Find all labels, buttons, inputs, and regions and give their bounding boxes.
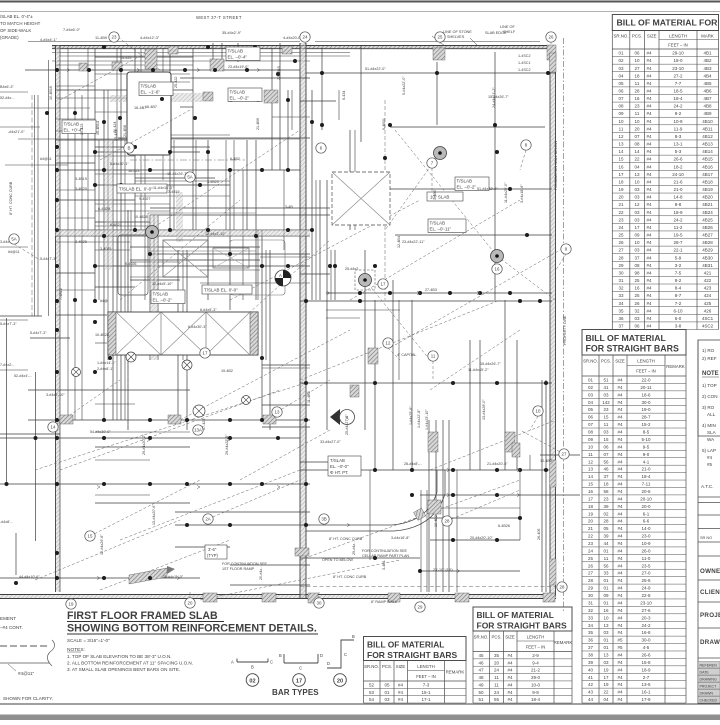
svg-text:11-#4x45'-2": 11-#4x45'-2" [468,368,489,372]
svg-text:PCS.: PCS. [382,664,392,669]
svg-text:#4: #4 [647,286,653,291]
svg-text:5) LAP: 5) LAP [702,448,716,453]
svg-text:WA: WA [707,437,715,442]
svg-text:T/SLAB: T/SLAB [430,221,446,226]
svg-text:426: 426 [704,308,712,313]
svg-text:18-5: 18-5 [673,89,683,94]
svg-text:5-#4x7'-3": 5-#4x7'-3" [30,331,47,335]
svg-text:8-2: 8-2 [675,278,682,283]
svg-text:3-4B: 3-4B [285,205,293,209]
svg-text:3-#4x5'-10": 3-#4x5'-10" [46,393,65,397]
svg-text:17-1: 17-1 [421,697,431,702]
svg-text:DATE: DATE [700,671,710,675]
svg-text:4B19: 4B19 [702,187,713,192]
svg-text:13A: 13A [194,428,202,433]
svg-text:03: 03 [634,195,640,200]
svg-text:8-5: 8-5 [643,430,650,435]
svg-text:20-#4x...: 20-#4x... [259,566,263,580]
svg-text:#4: #4 [507,668,513,673]
slab top edge [52,46,556,62]
svg-text:2) CON: 2) CON [702,394,718,399]
svg-text:2) REF: 2) REF [702,356,717,361]
svg-text:12: 12 [634,202,640,207]
dimension annotations [19,54,552,604]
svg-text:42: 42 [588,682,594,687]
svg-text:#4: #4 [617,400,623,405]
svg-text:3-4B20: 3-4B20 [207,180,219,184]
svg-text:DRAWING: DRAWING [700,678,717,682]
svg-text:32: 32 [588,608,594,613]
svg-text:32: 32 [618,286,624,291]
svg-text:04: 04 [603,697,609,702]
west margin lines [7,318,36,575]
svg-text:#4: #4 [617,452,623,457]
rotated dimension annotations [9,66,567,580]
svg-text:#4: #4 [617,690,623,695]
svg-text:OF SIDE-WALK: OF SIDE-WALK [0,28,31,33]
svg-text:22: 22 [603,690,609,695]
svg-text:16: 16 [495,267,500,272]
svg-text:47: 47 [478,668,484,673]
svg-text:2-#4x8'-1": 2-#4x8'-1" [97,367,114,371]
drain circles [72,352,251,417]
svg-text:03: 03 [384,697,390,702]
svg-text:17-425: 17-425 [202,419,206,430]
svg-text:27-0: 27-0 [641,571,651,576]
svg-text:16-8: 16-8 [641,630,651,635]
svg-text:12-#4x5'-10": 12-#4x5'-10" [152,282,173,286]
svg-text:18-0: 18-0 [673,58,683,63]
svg-text:#4: #4 [617,407,623,412]
svg-text:2-9: 2-9 [532,653,539,658]
svg-text:T/SLAB: T/SLAB [64,122,80,127]
svg-text:#4: #4 [647,293,653,298]
svg-text:423: 423 [704,286,712,291]
svg-text:14: 14 [618,149,624,154]
svg-text:#4: #4 [647,142,653,147]
svg-text:EMENT: EMENT [0,616,16,621]
svg-text:#4: #4 [647,104,653,109]
svg-text:11: 11 [588,452,593,457]
svg-text:25: 25 [588,556,594,561]
svg-text:/SLAB EL. 0'-4"±: /SLAB EL. 0'-4"± [0,14,33,19]
svg-text:SR.NO.: SR.NO. [583,359,598,364]
svg-text:7-3: 7-3 [423,683,430,688]
svg-text:421: 421 [704,270,712,275]
svg-text:PCS.: PCS. [601,359,611,364]
svg-text:#4: #4 [647,255,653,260]
svg-text:51-#4x22'-0": 51-#4x22'-0" [477,187,498,191]
svg-text:#4: #4 [617,534,623,539]
svg-text:03: 03 [634,248,640,253]
svg-text:46: 46 [478,660,484,665]
svg-text:18: 18 [618,180,624,185]
svg-text:15: 15 [603,415,609,420]
svg-text:7-4B12: 7-4B12 [59,288,63,300]
svg-text:35-#4x2'-9": 35-#4x2'-9" [222,31,242,35]
svg-text:14-8: 14-8 [673,195,683,200]
svg-text:02: 02 [249,678,255,684]
svg-text:4B28: 4B28 [702,240,713,245]
stair core (hatched) [148,213,256,277]
svg-text:10: 10 [536,409,541,414]
svg-text:20: 20 [494,660,500,665]
svg-text:5-#4x7'-3": 5-#4x7'-3" [40,257,57,261]
svg-text:05: 05 [618,81,624,86]
svg-text:02: 02 [618,58,624,63]
svg-text:46: 46 [603,467,609,472]
svg-text:05: 05 [588,407,594,412]
svg-text:23: 23 [618,217,624,222]
svg-text:02: 02 [588,385,594,390]
ramp walls [421,420,449,592]
svg-text:26-6: 26-6 [673,157,683,162]
svg-text:B: B [251,665,254,670]
svg-text:20-6: 20-6 [641,489,651,494]
svg-text:SHELVES: SHELVES [447,35,465,39]
svg-text:15-8: 15-8 [641,660,651,665]
svg-text:29-10: 29-10 [672,51,684,56]
svg-text:06: 06 [588,415,594,420]
svg-text:1-4B5: 1-4B5 [433,190,437,200]
svg-text:#4: #4 [647,58,653,63]
svg-text:53: 53 [369,690,375,695]
svg-text:21: 21 [618,202,624,207]
svg-text:29-#4x23'-5": 29-#4x23'-5" [225,434,229,455]
section marker A (upper) [275,270,291,286]
svg-text:22: 22 [588,534,594,539]
svg-text:6-0: 6-0 [675,316,682,321]
svg-text:09: 09 [603,593,609,598]
svg-text:22-4B15: 22-4B15 [277,66,281,80]
svg-text:39: 39 [603,504,609,509]
svg-text:11-2: 11-2 [674,225,683,230]
svg-text:8-#4x30'-1": 8-#4x30'-1" [110,162,129,166]
svg-text:424: 424 [704,293,712,298]
top dimension strings [28,25,540,46]
svg-text:8-4: 8-4 [675,286,682,291]
svg-text:11-9: 11-9 [674,126,683,131]
svg-text:4B17: 4B17 [702,172,713,177]
svg-text:TO MATCH HEIGHT: TO MATCH HEIGHT [0,21,41,26]
svg-text:#4@11: #4@11 [40,157,52,161]
svg-text:4-#4x20-0": 4-#4x20-0" [283,36,302,40]
svg-text:15: 15 [618,157,624,162]
svg-text:#4: #4 [617,489,623,494]
svg-text:#4: #4 [617,385,623,390]
svg-text:#4: #4 [647,217,653,222]
svg-text:SIZE: SIZE [615,359,625,364]
svg-text:16: 16 [618,164,624,169]
svg-text:01: 01 [603,638,609,643]
svg-text:1) RO: 1) RO [702,348,715,353]
svg-text:03: 03 [634,316,640,321]
svg-text:52-#4x4'-...: 52-#4x4'-... [14,374,32,378]
svg-text:#4: #4 [617,571,623,576]
svg-text:#4: #4 [617,437,623,442]
svg-text:Φ HT. PT.: Φ HT. PT. [330,470,348,475]
column pads [60,45,556,603]
svg-text:REFEREN: REFEREN [700,664,718,668]
svg-text:21-424: 21-424 [113,122,117,133]
svg-text:6-4B2B: 6-4B2B [98,207,111,211]
svg-text:25: 25 [634,278,640,283]
svg-text:#4: #4 [617,459,623,464]
svg-text:4B5: 4B5 [703,81,712,86]
svg-text:26: 26 [588,563,594,568]
svg-text:09: 09 [588,437,594,442]
svg-text:422: 422 [704,278,712,283]
svg-text:55: 55 [494,697,500,702]
page top border [0,2,720,12]
svg-text:SHOWING BOTTOM REINFORCEMENT D: SHOWING BOTTOM REINFORCEMENT DETAILS. [67,623,317,635]
svg-text:16-1: 16-1 [641,690,651,695]
svg-text:B: B [128,146,131,151]
svg-text:FEET – IN: FEET – IN [636,369,655,374]
svg-text:15-#4x26'-7": 15-#4x26'-7" [167,172,188,176]
svg-text:#4: #4 [617,675,623,680]
svg-text:4" CAPITAL: 4" CAPITAL [397,353,416,357]
svg-text:SLA: SLA [707,430,717,435]
svg-text:26-406: 26-406 [537,529,541,540]
svg-text:38: 38 [588,653,594,658]
svg-text:#4: #4 [617,623,623,628]
svg-text:T/SLAB: T/SLAB [330,458,345,463]
svg-text:45: 45 [478,653,484,658]
svg-text:#5: #5 [707,462,713,467]
svg-text:20: 20 [634,126,640,131]
svg-text:28: 28 [588,578,594,583]
bar type 02 symbol [231,659,273,670]
svg-text:REMARK: REMARK [446,670,465,675]
svg-text:7-2: 7-2 [675,301,682,306]
svg-text:#4: #4 [647,89,653,94]
svg-text:1-#4x14'-1": 1-#4x14'-1" [97,361,116,365]
svg-text:7-#4x2...: 7-#4x2... [0,363,14,367]
svg-text:4SC2: 4SC2 [702,324,714,329]
svg-text:#5: #5 [617,645,623,650]
svg-text:25-#4x27'-5": 25-#4x27'-5" [345,414,349,435]
svg-text:BILL OF MATERIAL: BILL OF MATERIAL [367,640,444,650]
svg-text:9-0: 9-0 [643,452,650,457]
svg-text:A.T.C.: A.T.C. [701,484,714,489]
svg-text:4B9: 4B9 [703,111,712,116]
svg-text:23: 23 [112,35,117,40]
svg-text:3. AT SMALL SLAB OPENINGS BEN: 3. AT SMALL SLAB OPENINGS BENT BARS ON S… [67,667,180,672]
svg-text:20: 20 [618,195,624,200]
svg-text:16-4B14: 16-4B14 [96,121,100,135]
svg-text:44: 44 [603,541,609,546]
svg-text:20: 20 [188,601,193,606]
svg-text:SIZE: SIZE [647,34,657,39]
svg-text:9-9: 9-9 [532,690,539,695]
svg-text:13-1: 13-1 [673,142,683,147]
svg-text:27-4B3: 27-4B3 [425,288,437,292]
svg-text:08: 08 [588,430,594,435]
svg-text:#4: #4 [617,415,623,420]
svg-text:SHOWN FOR CLARITY.: SHOWN FOR CLARITY. [3,696,53,701]
svg-text:PROJEC: PROJEC [700,612,720,619]
svg-text:#4: #4 [617,496,623,501]
svg-text:10-4B2: 10-4B2 [540,459,552,463]
svg-text:8-3: 8-3 [675,134,682,139]
svg-text:3-4B25: 3-4B25 [75,240,87,244]
svg-text:#4: #4 [617,556,623,561]
svg-text:10-4B28: 10-4B28 [95,333,109,337]
svg-text:1ST FLOOR RAMP: 1ST FLOOR RAMP [222,567,255,571]
svg-text:17: 17 [203,351,208,356]
svg-text:11: 11 [431,354,436,359]
svg-text:#4: #4 [617,430,623,435]
svg-text:17: 17 [618,172,624,177]
svg-text:4B21: 4B21 [702,202,713,207]
svg-text:50: 50 [478,690,484,695]
svg-text:31: 31 [588,601,594,606]
svg-text:01: 01 [603,586,609,591]
svg-text:05: 05 [384,683,390,688]
svg-text:#4: #4 [617,586,623,591]
slab bottom edge [0,595,556,599]
svg-text:10-4B2: 10-4B2 [434,515,438,527]
svg-text:SHELF: SHELF [503,30,516,34]
svg-text:14: 14 [588,474,594,479]
svg-text:27-2: 27-2 [673,73,683,78]
svg-text:4B10: 4B10 [702,119,713,124]
svg-text:12: 12 [588,459,594,464]
svg-text:3-2: 3-2 [675,263,682,268]
svg-text:9-2: 9-2 [675,111,682,116]
page bottom border [0,704,720,720]
svg-text:25: 25 [438,35,443,40]
svg-text:21-4B9: 21-4B9 [256,118,260,130]
svg-text:#4: #4 [507,660,513,665]
left margin fragments [0,616,55,701]
svg-text:21-0: 21-0 [673,187,683,192]
svg-text:T/SLAB: T/SLAB [457,179,473,184]
svg-text:#4: #4 [617,697,623,702]
svg-text:C: C [344,652,347,657]
svg-text:14-0: 14-0 [641,526,651,531]
svg-text:9-5: 9-5 [643,444,650,449]
svg-text:18-6: 18-6 [641,392,651,397]
svg-text:11-4B9: 11-4B9 [95,36,107,40]
svg-text:EL. –0'-0": EL. –0'-0" [330,464,349,469]
svg-text:18: 18 [634,73,640,78]
svg-text:#4: #4 [617,482,623,487]
svg-text:24: 24 [303,35,308,40]
svg-text:12-4B4: 12-4B4 [397,236,401,248]
svg-text:7-#4x6'-0": 7-#4x6'-0" [63,28,81,32]
svg-text:21-0: 21-0 [641,467,651,472]
svg-text:30: 30 [588,593,594,598]
svg-text:44-#4x10'-6": 44-#4x10'-6" [19,575,40,579]
svg-text:14: 14 [51,425,56,430]
svg-text:(TYP): (TYP) [207,553,219,558]
svg-text:13: 13 [603,653,609,658]
svg-text:#4: #4 [647,270,653,275]
svg-text:#4: #4 [617,422,623,427]
svg-text:EL. –1'-6": EL. –1'-6" [141,90,161,95]
ramp curve [129,470,445,584]
svg-text:21-6: 21-6 [673,180,683,185]
svg-text:35: 35 [618,308,624,313]
svg-text:9-4027: 9-4027 [139,197,150,201]
svg-text:#4: #4 [647,210,653,215]
svg-text:05: 05 [603,526,609,531]
svg-text:3-4025: 3-4025 [100,247,111,251]
svg-text:07: 07 [618,96,624,101]
svg-text:-#4x8'...: -#4x8'... [0,520,13,524]
svg-text:09: 09 [618,111,624,116]
svg-text:30-0: 30-0 [641,638,651,643]
svg-text:4B8: 4B8 [703,104,712,109]
svg-text:#4: #4 [398,690,404,695]
svg-text:49: 49 [478,682,484,687]
svg-text:#4: #4 [647,119,653,124]
svg-text:#4: #4 [617,615,623,620]
svg-text:3B: 3B [321,517,326,522]
svg-text:#4: #4 [507,675,513,680]
svg-text:#4: #4 [647,308,653,313]
svg-text:10: 10 [634,240,640,245]
svg-text:C: C [270,660,273,665]
center wall [300,43,306,598]
svg-text:54-#4x30'-0": 54-#4x30'-0" [90,430,111,434]
svg-text:#4: #4 [647,157,653,162]
svg-text:#4: #4 [617,630,623,635]
svg-text:8-8: 8-8 [675,202,682,207]
svg-text:T/SLAB EL. 0'-0": T/SLAB EL. 0'-0" [204,288,238,293]
svg-text:#4: #4 [647,134,653,139]
svg-text:6-4B31: 6-4B31 [382,118,386,130]
svg-text:FOR STRAIGHT BARS: FOR STRAIGHT BARS [367,650,458,660]
svg-text:10-9: 10-9 [673,119,683,124]
svg-text:T/SLAB: T/SLAB [153,292,169,297]
svg-text:8" RAMP WALL: 8" RAMP WALL [371,600,397,604]
dimension arrows [67,68,520,579]
svg-text:5-#4x7'-3": 5-#4x7'-3" [0,322,17,326]
svg-text:17: 17 [296,678,302,684]
svg-text:06: 06 [603,444,609,449]
bar type 17 bubble [293,674,306,687]
svg-text:34: 34 [618,301,624,306]
svg-text:#4: #4 [647,301,653,306]
svg-text:5A: 5A [187,175,192,180]
svg-text:04: 04 [618,73,624,78]
svg-text:19: 19 [69,602,74,607]
svg-text:PCS.: PCS. [491,635,501,640]
svg-text:26: 26 [618,240,624,245]
svg-text:10-9: 10-9 [641,541,651,546]
svg-text:1. TOP OF SLAB ELEVATION TO B: 1. TOP OF SLAB ELEVATION TO BE 38'-3" U.… [67,654,172,659]
svg-text:4B27: 4B27 [702,233,713,238]
bar intersection dots [5,45,551,585]
svg-text:56: 56 [603,459,609,464]
svg-text:23'-10" (19'): 23'-10" (19') [433,568,453,572]
svg-text:T/SLAB: T/SLAB [230,90,246,95]
bar type 02 bubble [246,674,259,687]
svg-text:28: 28 [634,89,640,94]
svg-text:19-5: 19-5 [673,233,683,238]
svg-text:24-9: 24-9 [641,586,651,591]
svg-text:#4: #4 [647,187,653,192]
svg-text:10-4B16: 10-4B16 [49,86,53,100]
svg-text:35: 35 [494,653,500,658]
svg-text:#4: #4 [617,601,623,606]
svg-text:B4x6'-3": B4x6'-3" [0,85,14,89]
svg-text:#4: #4 [617,378,623,383]
svg-text:03: 03 [603,630,609,635]
